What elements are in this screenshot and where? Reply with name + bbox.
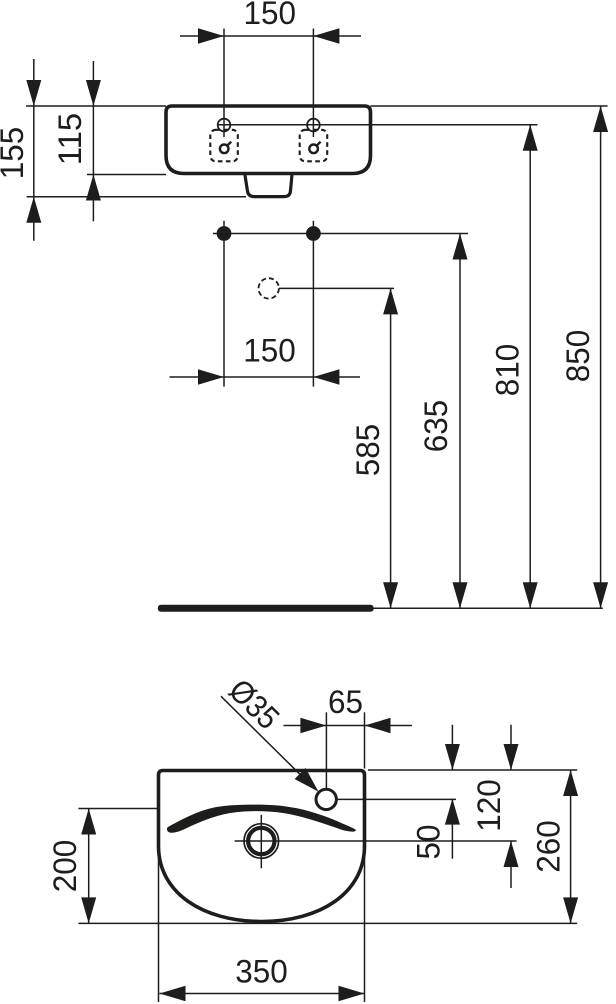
fixing hole left: dashed square (210, 130, 238, 162)
svg-text:585: 585 (350, 424, 386, 477)
drain crosshair vertical (260, 815, 262, 869)
svg-text:150: 150 (243, 0, 296, 31)
drain outlet trapezoid (245, 175, 292, 197)
drain height line (279, 287, 394, 289)
arrowheads: dim 155 (26, 80, 41, 106)
dimension 350 line (160, 993, 365, 995)
drain center line to 120 dim (235, 840, 517, 842)
floor line thick (158, 605, 374, 612)
fixing hole left: keyhole symbol (220, 145, 229, 154)
wall dot right vertical (312, 221, 314, 387)
arrowheads: dim 65 (300, 718, 326, 733)
drain outer circle (244, 824, 279, 859)
hole center line (217, 124, 538, 126)
svg-text:200: 200 (47, 840, 83, 893)
wall dot left vertical (223, 221, 225, 387)
fixing hole right: keyhole symbol (309, 145, 318, 154)
extension line tap hole up (325, 712, 327, 789)
fixing hole right: dashed square (300, 130, 328, 162)
dimension 120 line upper (510, 725, 512, 770)
svg-text:810: 810 (490, 344, 526, 397)
svg-text:850: 850 (560, 330, 596, 383)
drain inner circle (248, 828, 274, 854)
arrowheads: dim 150 top (198, 28, 224, 43)
extension line 350 left (158, 850, 160, 1002)
extension line outlet bottom left (27, 196, 246, 198)
svg-text:65: 65 (328, 684, 363, 720)
dimension 635 line (459, 234, 461, 609)
tap hole center line to 50 dim (337, 798, 457, 800)
svg-text:635: 635 (418, 400, 454, 453)
dimension 810 line (529, 125, 531, 609)
dimension 850 line (600, 106, 602, 608)
arrowheads: dim 585 (383, 288, 398, 314)
fixing hole left: bolt circle (218, 119, 231, 132)
basin plan view outline (159, 771, 365, 922)
arrowheads: dim 350 (160, 986, 186, 1001)
extension line basin right edge up (364, 712, 366, 768)
dimension 150 middle line (170, 376, 361, 378)
leader line for tap hole (221, 696, 314, 788)
floor line thin (370, 607, 603, 609)
extension line 350 right (364, 846, 366, 1002)
arrowheads: dim 115 (86, 80, 101, 106)
arrowheads: dim 50 (445, 744, 460, 770)
svg-text:350: 350 (235, 954, 288, 990)
dimension 150 top line (180, 35, 361, 37)
arrowheads: dim 200 (81, 809, 96, 835)
dimension 260 line (570, 770, 572, 923)
basin front view outline (166, 106, 371, 174)
wall dots line (213, 233, 468, 235)
extension line basin top right (371, 105, 608, 107)
arrowheads: dim 850 (593, 106, 608, 132)
fixing hole left: vertical extension line (223, 29, 225, 138)
arrowheads: dim 150 middle (198, 369, 224, 384)
arrowheads: dim 635 (453, 234, 468, 260)
dimension 200 line (88, 809, 90, 924)
extension line plan bottom (78, 922, 577, 924)
svg-text:50: 50 (411, 825, 447, 860)
dimension 115 line (92, 61, 94, 221)
dimension 120 line lower (510, 841, 512, 888)
fixing hole right: vertical extension line (312, 29, 314, 138)
extension line wave left (78, 808, 159, 810)
svg-text:120: 120 (471, 779, 507, 832)
svg-text:150: 150 (243, 333, 296, 369)
dimension 585 line (390, 288, 392, 608)
svg-text:115: 115 (52, 113, 88, 166)
extension line plan top right (368, 769, 577, 771)
dimension 65 line (284, 725, 412, 727)
dimension 50 line lower (451, 799, 453, 859)
extension line basin top left (26, 105, 166, 107)
dimension 155 line (33, 59, 35, 241)
arrowheads: dim 260 (563, 770, 578, 796)
wall dot left (217, 226, 232, 241)
tap hole circle (316, 789, 336, 809)
extension line basin bottom left (87, 174, 166, 176)
arrowhead: leader (295, 768, 319, 792)
svg-text:155: 155 (0, 127, 30, 180)
wave front rim line (167, 805, 356, 833)
wall dot right (306, 226, 321, 241)
dimension 50 line upper (451, 725, 453, 770)
svg-text:260: 260 (531, 820, 567, 873)
dashed drain circle (259, 278, 279, 298)
arrowheads: dim 810 (523, 125, 538, 151)
arrowheads: dim 120 (504, 744, 519, 770)
fixing hole right: bolt circle (307, 119, 320, 132)
